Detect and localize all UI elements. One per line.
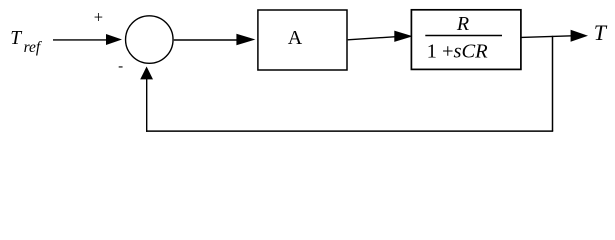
arrowhead into R bbox=[394, 31, 413, 42]
fraction line bbox=[425, 35, 502, 37]
wire sum to A bbox=[174, 39, 238, 41]
node Tref label bbox=[10, 28, 43, 56]
block R bbox=[411, 10, 521, 70]
svg-text:ref: ref bbox=[24, 39, 43, 56]
svg-text:-: - bbox=[118, 59, 123, 75]
feedback wire bottom bbox=[146, 130, 553, 132]
block A bbox=[258, 10, 347, 70]
wire input bbox=[53, 39, 108, 41]
arrowhead feedback into sum bbox=[140, 67, 153, 80]
svg-text:T: T bbox=[10, 28, 22, 49]
arrowhead into A bbox=[236, 34, 255, 45]
feedback wire down bbox=[552, 36, 554, 131]
svg-text:+: + bbox=[94, 7, 103, 26]
svg-text:T: T bbox=[594, 20, 608, 45]
arrowhead input bbox=[106, 34, 122, 45]
arrowhead output bbox=[571, 30, 588, 42]
svg-text:A: A bbox=[288, 27, 303, 49]
svg-text:1 +sCR: 1 +sCR bbox=[427, 40, 489, 62]
wire R to output bbox=[521, 36, 572, 38]
feedback wire up bbox=[146, 79, 148, 132]
wire A to R bbox=[348, 37, 396, 40]
summing junction bbox=[126, 16, 174, 64]
svg-text:R: R bbox=[456, 13, 469, 35]
